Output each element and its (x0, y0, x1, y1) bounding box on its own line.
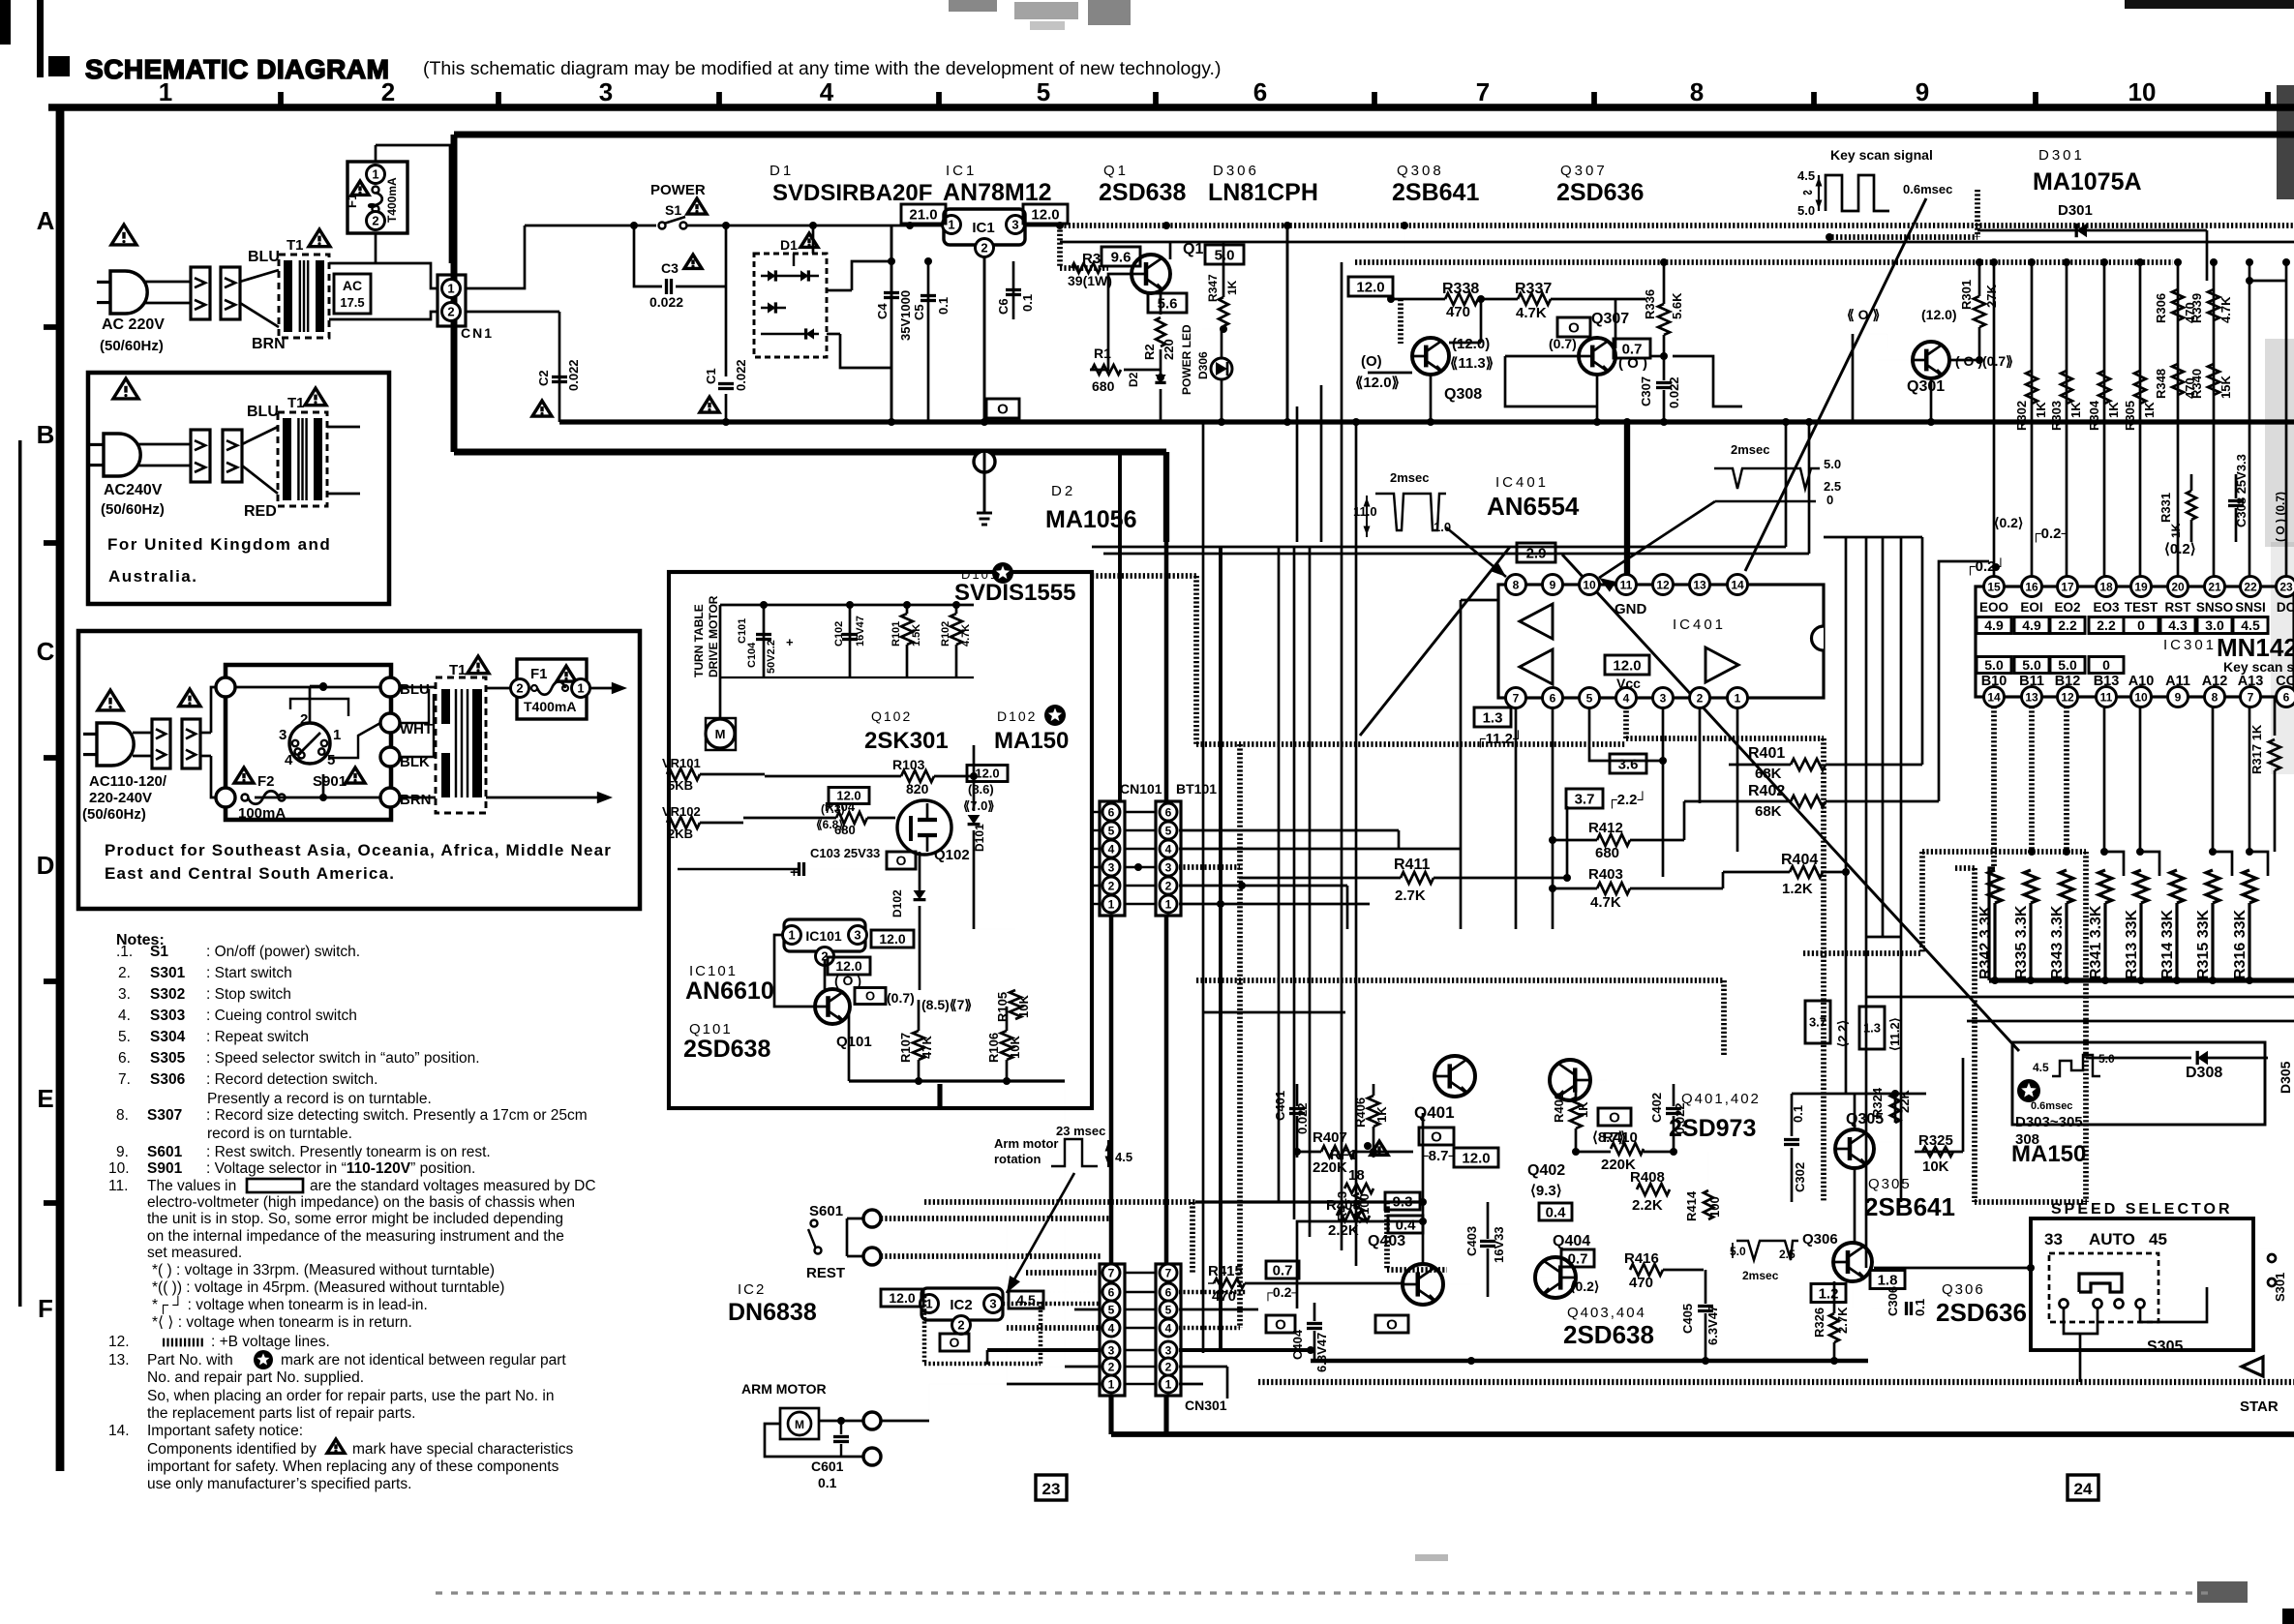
svg-text:O: O (896, 853, 907, 868)
svg-text:R406: R406 (1353, 1098, 1368, 1128)
svg-text:E: E (37, 1084, 53, 1113)
svg-text:R336: R336 (1643, 289, 1657, 319)
svg-text:R402: R402 (1748, 783, 1785, 799)
svg-text:12.0: 12.0 (1613, 657, 1641, 674)
svg-text:1K: 1K (2169, 523, 2183, 538)
svg-text:1.8: 1.8 (1878, 1272, 1898, 1288)
svg-text:3: 3 (1011, 218, 1018, 232)
svg-text:1K: 1K (2068, 402, 2083, 418)
svg-text:AN6554: AN6554 (1487, 492, 1580, 521)
svg-text:: +B voltage lines.: : +B voltage lines. (211, 1334, 330, 1350)
svg-text:S307: S307 (147, 1107, 182, 1124)
svg-text:Part No. with: Part No. with (147, 1352, 233, 1368)
svg-text:CN301: CN301 (1185, 1398, 1227, 1413)
svg-text:: Voltage selector in “110-120: : Voltage selector in “110-120V” positio… (206, 1160, 475, 1177)
svg-text:16V47: 16V47 (855, 616, 866, 647)
svg-text:IC2: IC2 (738, 1281, 766, 1298)
svg-text:C6: C6 (996, 298, 1011, 315)
svg-text:BLU: BLU (248, 249, 280, 265)
svg-text:10: 10 (1583, 578, 1596, 591)
svg-text:4.9: 4.9 (2022, 617, 2041, 633)
svg-text:10: 10 (2128, 77, 2157, 106)
svg-text:D305: D305 (2278, 1061, 2293, 1094)
svg-text:D1: D1 (780, 237, 798, 253)
svg-text:1: 1 (447, 282, 454, 296)
svg-text:REST: REST (806, 1265, 845, 1281)
svg-text:3.: 3. (118, 986, 131, 1003)
svg-text:mark have special characterist: mark have special characteristics (352, 1441, 574, 1458)
svg-text:0: 0 (2137, 617, 2145, 633)
svg-text:Key scan si: Key scan si (2223, 659, 2294, 675)
svg-text:*┌ ┘ : voltage when ton: *┌ ┘ : voltage when tonearm is in lead-i… (152, 1296, 428, 1314)
svg-text:20: 20 (2171, 580, 2185, 593)
svg-text:6: 6 (1550, 691, 1556, 705)
svg-text:Q307: Q307 (1591, 311, 1629, 327)
svg-text:D306: D306 (1196, 351, 1210, 379)
svg-text:4.: 4. (118, 1007, 131, 1024)
svg-text:SPEED SELECTOR: SPEED SELECTOR (2051, 1201, 2233, 1218)
svg-text:electro-voltmeter (high impeda: electro-voltmeter (high impedance) on th… (147, 1194, 575, 1211)
svg-text:C104: C104 (746, 642, 758, 668)
svg-text:4: 4 (1165, 1321, 1172, 1335)
svg-text:2: 2 (1165, 879, 1172, 892)
svg-text:MA150: MA150 (994, 728, 1069, 754)
svg-text:R315 33K: R315 33K (2195, 910, 2212, 979)
svg-text:5: 5 (1586, 691, 1593, 705)
svg-text:2: 2 (381, 77, 395, 106)
svg-text:Presently a record is on turnt: Presently a record is on turntable. (207, 1091, 432, 1107)
svg-text:⟪6.8⟫: ⟪6.8⟫ (816, 818, 845, 831)
svg-text:Q306: Q306 (1802, 1231, 1838, 1248)
svg-text:4.7K: 4.7K (2219, 296, 2233, 323)
svg-text:LN81CPH: LN81CPH (1208, 179, 1318, 206)
svg-text:EO2: EO2 (2054, 600, 2080, 615)
svg-text:East and Central South America: East and Central South America. (105, 864, 395, 883)
svg-text:EOI: EOI (2020, 600, 2042, 615)
svg-text:0.1: 0.1 (1020, 294, 1035, 312)
svg-text:0.4: 0.4 (1546, 1204, 1567, 1220)
svg-text:*⟨ ⟩ : voltage when tonea: *⟨ ⟩ : voltage when tonearm is in return… (152, 1314, 412, 1331)
svg-text:1: 1 (1735, 691, 1741, 705)
svg-text:0.1: 0.1 (1913, 1299, 1927, 1316)
svg-text:DRIVE MOTOR: DRIVE MOTOR (707, 595, 720, 677)
svg-text:2: 2 (516, 681, 523, 696)
svg-text:5.6K: 5.6K (1670, 292, 1684, 319)
svg-text:S305: S305 (150, 1050, 186, 1067)
svg-text:┌0.2┘: ┌0.2┘ (2031, 525, 2071, 543)
svg-text:R101: R101 (890, 621, 902, 647)
svg-text:on the internal impedance of t: on the internal impedance of the measuri… (147, 1228, 564, 1245)
svg-text:the unit is in stop. So, some: the unit is in stop. So, some error migh… (147, 1211, 563, 1227)
svg-text:CN101: CN101 (1120, 781, 1162, 797)
svg-text:Important safety notice:: Important safety notice: (147, 1423, 303, 1439)
svg-text:S1: S1 (150, 944, 168, 960)
svg-text:33: 33 (2044, 1230, 2063, 1248)
svg-text:12.0: 12.0 (1356, 279, 1384, 295)
svg-text:: Record detection switch.: : Record detection switch. (206, 1071, 377, 1088)
svg-text:68K: 68K (1755, 766, 1782, 782)
svg-text:SVDSIRBA20F: SVDSIRBA20F (772, 180, 932, 206)
svg-text:(50/60Hz): (50/60Hz) (100, 338, 164, 354)
svg-text:Product for Southeast Asia, Oc: Product for Southeast Asia, Oceania, Afr… (105, 841, 612, 859)
svg-text:22: 22 (2244, 580, 2257, 593)
svg-text:0: 0 (1826, 493, 1833, 507)
svg-text:5: 5 (1108, 1303, 1115, 1316)
svg-text:R106: R106 (986, 1033, 1001, 1063)
svg-text:1: 1 (788, 928, 795, 943)
svg-text:21: 21 (2208, 580, 2221, 593)
svg-text:IC1: IC1 (972, 220, 994, 236)
svg-text:11: 11 (1620, 578, 1633, 591)
svg-text:.1.: .1. (116, 944, 133, 960)
svg-text:0.4: 0.4 (1396, 1217, 1417, 1233)
svg-text:4: 4 (820, 77, 834, 106)
svg-text:⟨0.2⟩: ⟨0.2⟩ (2164, 541, 2196, 557)
svg-text:S901: S901 (313, 773, 347, 790)
svg-text:47K: 47K (920, 1036, 934, 1059)
svg-text:9: 9 (1550, 578, 1556, 591)
svg-text:3: 3 (1165, 860, 1172, 874)
svg-text:( O ): ( O ) (834, 973, 861, 988)
svg-text:0.022: 0.022 (1667, 376, 1681, 408)
svg-text:4.7K: 4.7K (1590, 894, 1621, 911)
svg-text:1K: 1K (2106, 402, 2121, 418)
svg-text:For United Kingdom and: For United Kingdom and (107, 535, 331, 554)
svg-text:14.: 14. (108, 1423, 130, 1439)
svg-text:┌2.2┘: ┌2.2┘ (1607, 791, 1647, 809)
svg-text:2: 2 (1108, 1360, 1115, 1373)
svg-text:S301: S301 (2273, 1273, 2287, 1302)
svg-text:: On/off (power) switch.: : On/off (power) switch. (206, 944, 360, 960)
svg-text:14: 14 (1987, 690, 2001, 704)
svg-text:1K: 1K (1374, 1106, 1389, 1123)
svg-text:0.022: 0.022 (566, 359, 581, 391)
svg-text:⟨9.3⟩: ⟨9.3⟩ (1530, 1183, 1562, 1199)
svg-text:4.9: 4.9 (1984, 617, 2004, 633)
svg-text:R326: R326 (1812, 1308, 1826, 1338)
svg-text:T1: T1 (287, 395, 305, 411)
svg-text:23 msec: 23 msec (1056, 1124, 1105, 1138)
svg-text:C601: C601 (811, 1459, 844, 1474)
svg-text:The values in: The values in (147, 1178, 236, 1194)
svg-text:0.7: 0.7 (1568, 1250, 1588, 1267)
svg-text:(O): (O) (1361, 353, 1382, 370)
svg-text:4: 4 (285, 752, 293, 768)
svg-text:13.: 13. (108, 1352, 130, 1368)
svg-text:6: 6 (1165, 805, 1172, 819)
svg-text:4: 4 (1108, 1321, 1115, 1335)
svg-text:1K: 1K (1225, 280, 1239, 295)
svg-text:0.6msec: 0.6msec (2031, 1100, 2072, 1112)
svg-text:2.2K: 2.2K (1632, 1197, 1663, 1214)
svg-text:2msec: 2msec (1731, 442, 1769, 457)
svg-text:100mA: 100mA (238, 805, 286, 822)
svg-text:R304: R304 (2087, 400, 2101, 431)
svg-text:MA150: MA150 (2011, 1141, 2086, 1167)
svg-text:R107: R107 (898, 1033, 913, 1063)
svg-text:820: 820 (906, 781, 929, 797)
svg-text:(0.7): (0.7) (1549, 336, 1577, 351)
svg-text:1.3: 1.3 (1863, 1021, 1881, 1036)
svg-text:16: 16 (2025, 580, 2038, 593)
svg-text:C103 25V33: C103 25V33 (810, 846, 880, 860)
svg-text:Vcc: Vcc (1616, 676, 1641, 691)
svg-text:R2: R2 (1142, 344, 1157, 360)
svg-text:0.1: 0.1 (1791, 1105, 1805, 1123)
svg-text:T400mA: T400mA (385, 177, 399, 223)
svg-text:5: 5 (1037, 77, 1050, 106)
svg-text:2.5: 2.5 (1824, 479, 1841, 494)
svg-text:0.1: 0.1 (936, 297, 951, 315)
svg-text:M: M (795, 1418, 804, 1431)
svg-text:R407: R407 (1313, 1129, 1347, 1146)
svg-text:C102: C102 (833, 621, 845, 647)
svg-text:39(1W): 39(1W) (1068, 273, 1112, 288)
svg-text:(50/60Hz): (50/60Hz) (82, 806, 146, 823)
svg-text:0.7: 0.7 (1273, 1262, 1293, 1278)
svg-text:17.5: 17.5 (340, 295, 364, 310)
svg-text:So, when placing an order for: So, when placing an order for repair par… (147, 1388, 554, 1404)
svg-text:D308: D308 (2186, 1065, 2222, 1081)
svg-text:Q101: Q101 (836, 1034, 872, 1050)
svg-text:Australia.: Australia. (108, 567, 197, 586)
svg-text:Q401,402: Q401,402 (1681, 1091, 1761, 1107)
svg-text:11.: 11. (108, 1178, 128, 1194)
svg-text:F2: F2 (257, 773, 275, 790)
svg-text:AN6610: AN6610 (685, 977, 774, 1005)
svg-text:IC401: IC401 (1673, 617, 1726, 633)
svg-text:C306: C306 (1886, 1286, 1900, 1316)
svg-text:2SK301: 2SK301 (864, 728, 949, 754)
svg-text:Q403: Q403 (1368, 1233, 1405, 1249)
svg-text:4: 4 (1623, 691, 1630, 705)
svg-text:(0.7): (0.7) (887, 990, 915, 1006)
svg-text:D102: D102 (997, 708, 1037, 724)
svg-text:1: 1 (577, 681, 584, 696)
svg-text:12: 12 (1656, 578, 1670, 591)
svg-text:S301: S301 (150, 965, 186, 981)
svg-text:C5: C5 (912, 304, 926, 320)
svg-text:No. and repair part No. suppli: No. and repair part No. supplied. (147, 1369, 364, 1386)
svg-text:24: 24 (2074, 1480, 2093, 1498)
svg-text:12.0: 12.0 (835, 958, 861, 974)
svg-text:AC110-120/: AC110-120/ (89, 773, 167, 790)
svg-text:BLU: BLU (400, 681, 430, 698)
svg-text:⟪11.3⟫: ⟪11.3⟫ (1450, 355, 1494, 372)
svg-text:Components identified by: Components identified by (147, 1441, 317, 1458)
svg-text:O: O (1275, 1316, 1286, 1333)
svg-text:4: 4 (1108, 842, 1115, 856)
svg-text:10.: 10. (108, 1160, 130, 1177)
svg-text:2KB: 2KB (668, 827, 693, 841)
svg-text:S1: S1 (665, 202, 681, 218)
svg-text:17: 17 (2061, 580, 2074, 593)
svg-text:BRN: BRN (252, 336, 286, 352)
svg-text:O: O (1568, 319, 1580, 336)
svg-text:C4: C4 (875, 303, 890, 319)
svg-text:S601: S601 (147, 1144, 183, 1160)
svg-text:12.0: 12.0 (1462, 1150, 1490, 1166)
svg-text:470: 470 (1629, 1275, 1653, 1291)
svg-text:D: D (37, 851, 55, 880)
svg-text:R401: R401 (1748, 745, 1785, 762)
svg-text:R303: R303 (2049, 401, 2064, 431)
svg-text:7: 7 (1108, 1266, 1115, 1279)
svg-text:7: 7 (1476, 77, 1490, 106)
svg-text:6: 6 (2283, 690, 2290, 704)
svg-text:(8.5)⟪7⟫: (8.5)⟪7⟫ (921, 997, 972, 1012)
svg-text:R103: R103 (892, 757, 925, 772)
svg-text:are the standard voltages meas: are the standard voltages measured by DC (310, 1178, 596, 1194)
svg-text:1: 1 (1108, 1377, 1115, 1391)
svg-text:3: 3 (279, 727, 287, 743)
svg-text:15K: 15K (2219, 376, 2233, 399)
svg-text:⟨2.2⟩: ⟨2.2⟩ (1835, 1020, 1850, 1047)
svg-text:12.0: 12.0 (889, 1290, 915, 1306)
svg-text:23: 23 (1042, 1480, 1061, 1498)
svg-text:*(( )) : voltage in 45rpm: *(( )) : voltage in 45rpm. (Measured wit… (152, 1279, 504, 1296)
svg-text:R1: R1 (1094, 346, 1111, 361)
svg-text:D306: D306 (1213, 163, 1259, 179)
svg-text:S304: S304 (150, 1029, 186, 1045)
svg-text:680: 680 (1092, 378, 1115, 394)
svg-text:12.0: 12.0 (836, 789, 860, 803)
svg-text:5.0: 5.0 (2058, 657, 2077, 673)
svg-text:1.0: 1.0 (1434, 520, 1451, 534)
svg-text:(50/60Hz): (50/60Hz) (101, 501, 165, 518)
svg-text:4.5: 4.5 (1797, 168, 1815, 183)
svg-text:R313 33K: R313 33K (2124, 910, 2140, 979)
svg-text:2: 2 (1108, 879, 1115, 892)
svg-text:R306: R306 (2154, 293, 2168, 323)
svg-text:C403: C403 (1464, 1226, 1479, 1256)
svg-text:10K: 10K (1922, 1158, 1949, 1175)
svg-text:⟨8.7⟫: ⟨8.7⟫ (1592, 1129, 1626, 1146)
svg-text:R412: R412 (1588, 820, 1623, 836)
svg-text:S305: S305 (2147, 1338, 2183, 1355)
svg-text:TURN TABLE: TURN TABLE (692, 604, 706, 677)
svg-text:680: 680 (1595, 845, 1619, 861)
svg-text:4: 4 (1165, 842, 1172, 856)
svg-text:R301: R301 (1959, 280, 1974, 310)
svg-text:S302: S302 (150, 986, 185, 1003)
svg-text:∾: ∾ (1802, 185, 1813, 199)
svg-text:SNSI: SNSI (2235, 600, 2266, 615)
svg-text:1: 1 (925, 1297, 932, 1311)
svg-text:Q401: Q401 (1414, 1103, 1455, 1122)
svg-text:MN142: MN142 (2217, 633, 2294, 662)
svg-text:2.2: 2.2 (2058, 617, 2077, 633)
svg-text:2.7K: 2.7K (1835, 1307, 1850, 1334)
svg-text:100: 100 (1707, 1196, 1722, 1218)
svg-text:D102: D102 (890, 889, 904, 917)
svg-text:2.7K: 2.7K (1395, 887, 1426, 904)
svg-text:12.: 12. (108, 1334, 130, 1350)
svg-text:IC301: IC301 (2163, 637, 2217, 653)
svg-text:AN78M12: AN78M12 (943, 179, 1052, 206)
svg-text:1: 1 (1165, 1377, 1172, 1391)
svg-text:(12.0): (12.0) (1452, 336, 1490, 352)
svg-text:TEST: TEST (2125, 600, 2158, 615)
svg-text:5.0: 5.0 (2022, 657, 2041, 673)
svg-text:2.: 2. (118, 965, 131, 981)
svg-text:3: 3 (1660, 691, 1667, 705)
svg-text:A: A (37, 206, 55, 235)
svg-text:STAR: STAR (2240, 1398, 2279, 1415)
svg-text:R408: R408 (1630, 1169, 1665, 1186)
svg-text:9: 9 (1916, 77, 1929, 106)
svg-text:2: 2 (300, 711, 308, 728)
svg-text:2: 2 (372, 214, 378, 228)
svg-text:9.: 9. (116, 1144, 129, 1160)
svg-text:B: B (37, 420, 55, 449)
svg-text:: Repeat switch: : Repeat switch (206, 1029, 309, 1045)
svg-text:D301: D301 (2038, 147, 2085, 164)
svg-text:2: 2 (1165, 1360, 1172, 1373)
svg-text:4.3: 4.3 (2168, 617, 2188, 633)
svg-text:5KB: 5KB (668, 778, 693, 793)
svg-text:3.0: 3.0 (2205, 617, 2224, 633)
svg-text:7: 7 (2248, 690, 2254, 704)
svg-text:mark are not identical between: mark are not identical between regular p… (281, 1352, 566, 1368)
svg-text:DO: DO (2277, 600, 2294, 615)
svg-text:8: 8 (1513, 578, 1520, 591)
svg-text:R305: R305 (2123, 401, 2137, 431)
svg-text:SNSO: SNSO (2196, 600, 2233, 615)
svg-text:SCHEMATIC DIAGRAM: SCHEMATIC DIAGRAM (85, 54, 389, 84)
svg-text:: Start switch: : Start switch (206, 965, 292, 981)
svg-text:GND: GND (1615, 601, 1647, 617)
svg-text:R403: R403 (1588, 866, 1623, 883)
svg-text:1: 1 (159, 77, 172, 106)
svg-text:1: 1 (1165, 897, 1172, 911)
svg-text:┌8.7┘: ┌8.7┘ (1418, 1147, 1459, 1165)
svg-text:5: 5 (1165, 824, 1172, 837)
svg-text:Q102: Q102 (871, 708, 912, 724)
svg-text:3: 3 (854, 928, 860, 943)
svg-text:2: 2 (981, 241, 987, 256)
svg-text:R331: R331 (2158, 493, 2173, 523)
svg-text:10: 10 (2134, 690, 2148, 704)
svg-text:AC 220V: AC 220V (102, 316, 165, 333)
svg-text:7: 7 (1165, 1266, 1172, 1279)
svg-text:⟪7.0⟫: ⟪7.0⟫ (963, 798, 995, 813)
svg-text:DN6838: DN6838 (728, 1299, 817, 1326)
svg-text:F: F (38, 1294, 53, 1323)
svg-text:3.7: 3.7 (1809, 1015, 1826, 1030)
svg-text:S306: S306 (150, 1071, 186, 1088)
svg-text:5.0: 5.0 (1984, 657, 2004, 673)
svg-text:Q1: Q1 (1103, 163, 1129, 179)
svg-text:: Stop switch: : Stop switch (206, 986, 291, 1003)
svg-text:RST: RST (2165, 600, 2192, 615)
svg-text:T400mA: T400mA (524, 699, 576, 714)
svg-text:3.6: 3.6 (1618, 756, 1639, 772)
svg-text:R105: R105 (995, 992, 1010, 1022)
svg-text:: Rest switch. Presently tone: : Rest switch. Presently tonearm is on r… (206, 1144, 491, 1160)
svg-text:*( ) : voltage in 33rpm.: *( ) : voltage in 33rpm. (Measured witho… (152, 1262, 495, 1278)
svg-text:15: 15 (1987, 580, 2001, 593)
svg-text:Q301: Q301 (1907, 378, 1945, 395)
svg-text:2SD638: 2SD638 (1563, 1320, 1654, 1349)
svg-text:⟪12.0⟫: ⟪12.0⟫ (1355, 375, 1400, 391)
svg-text:IC401: IC401 (1495, 474, 1549, 491)
svg-text:68K: 68K (1755, 803, 1782, 820)
svg-text:rotation: rotation (994, 1152, 1041, 1166)
svg-text:21.0: 21.0 (909, 206, 937, 223)
svg-text:3: 3 (599, 77, 613, 106)
svg-text:8: 8 (2212, 690, 2219, 704)
